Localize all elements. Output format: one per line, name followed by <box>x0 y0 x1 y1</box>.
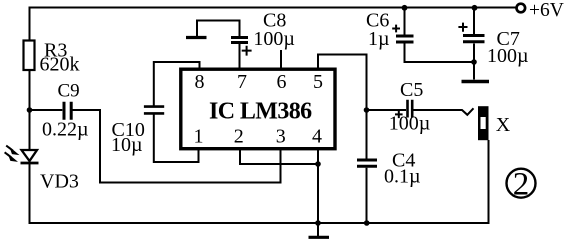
ground symbol bottom <box>317 223 319 236</box>
capacitor C6 <box>396 36 414 42</box>
svg-text:8: 8 <box>195 71 205 93</box>
node C7 rail junction dot <box>472 5 478 11</box>
svg-text:IC LM386: IC LM386 <box>209 99 312 125</box>
wire C7 top lead <box>473 8 475 35</box>
svg-text:0.1µ: 0.1µ <box>384 166 421 188</box>
wire C9 right lead to pin3 route <box>73 110 281 183</box>
wire top supply rail <box>30 7 516 9</box>
jack X body <box>478 106 489 140</box>
wire pin6 stub <box>280 50 282 68</box>
wire C10 bottom to pin1 <box>154 115 199 163</box>
svg-text:1: 1 <box>194 126 204 148</box>
svg-text:100µ: 100µ <box>487 45 529 67</box>
C5 plus sign <box>395 111 403 118</box>
node pin4 ground dot <box>315 220 321 226</box>
wire C8 to pin7 <box>239 44 241 68</box>
node pin2-pin4 dot <box>315 161 321 167</box>
C6 plus sign <box>392 25 400 33</box>
node C6-C7 junction dot <box>471 59 477 65</box>
wire pin2 to pin4 ground link <box>240 150 318 164</box>
wire pin4 down to ground rail <box>317 150 319 223</box>
wire jack to ground rail <box>488 140 490 224</box>
circled figure number 2 <box>507 169 536 198</box>
wire C8 top to ground stub <box>197 21 240 37</box>
wire left vertical lower <box>29 164 31 224</box>
capacitor C9 <box>64 102 71 120</box>
svg-text:X: X <box>496 114 511 136</box>
resistor R3 <box>24 41 35 71</box>
svg-text:1µ: 1µ <box>368 28 390 50</box>
wire C7 bottom lead <box>473 44 475 80</box>
node C6 rail junction dot <box>402 5 408 11</box>
node A junction dot R3/C9/VD3 <box>27 107 33 113</box>
node C4 ground dot <box>364 220 370 226</box>
C7 plus sign <box>458 23 467 32</box>
IC U1 LM386 body <box>181 69 335 149</box>
wire C5 left lead <box>367 109 407 111</box>
svg-text:4: 4 <box>312 126 322 148</box>
svg-text:620k: 620k <box>40 54 80 76</box>
wire C6 bottom lead to C7 <box>405 44 475 63</box>
node output junction dot <box>364 107 370 113</box>
wire C9 left lead <box>30 109 63 111</box>
capacitor C8 <box>231 38 248 43</box>
svg-text:7: 7 <box>237 71 247 93</box>
svg-text:3: 3 <box>276 126 286 148</box>
svg-text:6: 6 <box>277 71 287 93</box>
svg-text:2: 2 <box>513 167 530 203</box>
wire pin8 stub to C10 top <box>154 62 200 106</box>
svg-text:100µ: 100µ <box>253 28 295 50</box>
wire left vertical upper <box>29 7 31 41</box>
wire C6 top lead <box>404 8 406 35</box>
ground bar below C7 <box>462 80 490 83</box>
svg-text:100µ: 100µ <box>389 113 431 135</box>
svg-text:10µ: 10µ <box>111 134 143 156</box>
svg-text:0.22µ: 0.22µ <box>42 119 89 141</box>
capacitor C5 <box>408 100 413 118</box>
ground bar near C8 <box>186 36 207 39</box>
photodiode VD3 <box>5 146 39 163</box>
svg-text:+6V: +6V <box>529 0 564 21</box>
wire C5 right lead to jack <box>414 108 474 115</box>
svg-text:C5: C5 <box>400 79 423 101</box>
svg-text:2: 2 <box>234 126 244 148</box>
wire C4 bottom to ground rail <box>366 168 368 223</box>
wire pin5 output route <box>318 55 367 159</box>
svg-text:C9: C9 <box>58 81 80 102</box>
svg-text:VD3: VD3 <box>40 171 79 193</box>
capacitor C7 <box>463 36 485 42</box>
terminal +6V circle <box>517 4 526 13</box>
wire bottom ground rail <box>29 222 489 224</box>
svg-text:5: 5 <box>313 71 323 93</box>
C8 plus sign <box>242 46 252 56</box>
capacitor C10 <box>144 107 164 114</box>
wire left vertical mid <box>29 70 31 150</box>
capacitor C4 <box>357 160 377 166</box>
